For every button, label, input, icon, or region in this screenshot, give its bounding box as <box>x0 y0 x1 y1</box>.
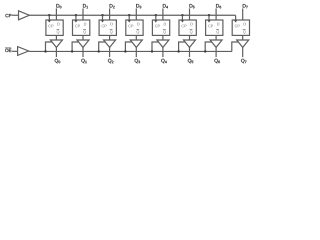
flip-flop FF8 body <box>232 20 249 35</box>
clock buffer U1 <box>19 11 30 20</box>
wire: buffer 5 output to pin Q4 <box>162 47 164 57</box>
wire: output-enable distribution line <box>29 50 232 52</box>
wire: buffer 4 output to pin Q3 <box>135 47 137 57</box>
wire: D5 input vertical <box>189 8 191 20</box>
junction dot: CP line to FF7 clock branch <box>208 14 210 16</box>
D input label D2 <box>110 4 115 8</box>
wire: clock branch into FF2 <box>75 15 77 20</box>
wire: FF4 Q-bar output down to 3-state buffer <box>135 35 137 40</box>
flip-flop FF5 body <box>152 20 169 35</box>
wire: enable branch to buffer cell 8 <box>232 42 239 51</box>
junction dot: OE line to buffer 7 enable <box>204 50 206 52</box>
wire: buffer 2 output to pin Q1 <box>82 47 84 57</box>
wire: FF6 Q-bar output down to 3-state buffer <box>189 35 191 40</box>
3-state output buffer cell 4 <box>130 40 142 47</box>
pin label CP inside FF4 <box>128 25 133 28</box>
output label Q7 <box>241 59 246 63</box>
wire: OE input to enable buffer <box>12 50 18 52</box>
wire: buffer 8 output to pin Q7 <box>242 47 244 57</box>
pin label D inside FF5 <box>164 23 166 26</box>
wire: FF2 Q-bar output down to 3-state buffer <box>82 35 84 40</box>
wire: clock branch into FF7 <box>208 15 210 20</box>
pin label CP inside FF7 <box>208 25 213 28</box>
wire: D1 input vertical <box>82 8 84 20</box>
wire: clock branch into FF4 <box>128 15 130 20</box>
clock edge-trigger arrow FF7 <box>207 20 210 22</box>
pin label Q-bar inside FF7 <box>216 30 219 33</box>
pin label CP inside FF8 <box>235 25 240 28</box>
3-state output buffer cell 1 <box>50 40 62 47</box>
clock edge-trigger arrow FF3 <box>101 20 104 22</box>
pin label D inside FF3 <box>111 23 113 26</box>
junction dot: CP line to FF6 clock branch <box>181 14 183 16</box>
wire: buffer 1 output to pin Q0 <box>55 47 57 57</box>
D input label D4 <box>163 4 168 8</box>
pin label Q-bar inside FF8 <box>243 30 246 33</box>
input label OE (active low) <box>5 49 11 52</box>
wire: enable branch to buffer cell 1 <box>46 42 53 51</box>
pin label Q-bar inside FF2 <box>83 30 86 33</box>
clock edge-trigger arrow FF2 <box>74 20 77 22</box>
junction dot: CP line to FF3 clock branch <box>101 14 103 16</box>
flip-flop FF6 body <box>179 20 196 35</box>
D input label D7 <box>243 4 248 8</box>
flip-flop FF2 body <box>73 20 90 35</box>
enable buffer U2 <box>18 47 29 56</box>
wire: clock branch into FF8 <box>235 15 237 20</box>
junction dot: OE line to buffer 6 enable <box>177 50 179 52</box>
junction dot: OE line to buffer 3 enable <box>98 50 100 52</box>
pin label CP inside FF3 <box>102 25 107 28</box>
pin label D inside FF2 <box>84 23 86 26</box>
output label Q1 <box>81 59 86 63</box>
junction dot: OE line to buffer 2 enable <box>71 50 73 52</box>
junction dot: OE line to buffer 4 enable <box>124 50 126 52</box>
junction dot: CP line to FF5 clock branch <box>155 14 157 16</box>
wire: FF7 Q-bar output down to 3-state buffer <box>215 35 217 40</box>
clock edge-trigger arrow FF4 <box>128 20 131 22</box>
wire: D2 input vertical <box>109 8 111 20</box>
wire: clock distribution line <box>29 14 235 16</box>
clock edge-trigger arrow FF5 <box>154 20 157 22</box>
wire: D7 input vertical <box>242 8 244 20</box>
pin label Q-bar inside FF6 <box>190 30 193 33</box>
pin label CP inside FF2 <box>75 25 80 28</box>
D input label D5 <box>190 4 195 8</box>
wire: enable branch to buffer cell 4 <box>125 42 131 51</box>
3-state output buffer cell 7 <box>210 40 222 47</box>
wire: D3 input vertical <box>135 8 137 20</box>
clock edge-trigger arrow FF8 <box>234 20 237 22</box>
pin label D inside FF6 <box>190 23 192 26</box>
wire: enable branch to buffer cell 6 <box>179 42 186 51</box>
junction dot: CP line to FF1 clock branch <box>48 14 50 16</box>
pin label D inside FF1 <box>57 23 59 26</box>
pin label D inside FF4 <box>137 23 139 26</box>
pin label CP inside FF1 <box>48 25 53 28</box>
junction dot: OE line to buffer 5 enable <box>151 50 153 52</box>
output label Q2 <box>108 59 113 63</box>
flip-flop FF3 body <box>99 20 116 35</box>
wire: enable branch to buffer cell 2 <box>72 42 79 51</box>
D input label D1 <box>83 4 88 8</box>
output label Q5 <box>188 59 193 63</box>
output label Q6 <box>214 59 219 63</box>
junction dot: CP line to FF4 clock branch <box>128 14 130 16</box>
3-state output buffer cell 5 <box>157 40 169 47</box>
clock edge-trigger arrow FF1 <box>48 20 51 22</box>
pin label CP inside FF5 <box>155 25 160 28</box>
pin label Q-bar inside FF5 <box>163 30 166 33</box>
clock edge-trigger arrow FF6 <box>181 20 184 22</box>
junction dot: CP line to FF2 clock branch <box>75 14 77 16</box>
D input label D0 <box>56 4 61 8</box>
wire: buffer 3 output to pin Q2 <box>109 47 111 57</box>
output label Q0 <box>55 59 60 63</box>
flip-flop FF1 body <box>46 20 63 35</box>
D input label D3 <box>136 4 141 8</box>
pin label Q-bar inside FF1 <box>57 30 60 33</box>
3-state output buffer cell 6 <box>184 40 196 47</box>
wire: FF5 Q-bar output down to 3-state buffer <box>162 35 164 40</box>
wire: FF3 Q-bar output down to 3-state buffer <box>109 35 111 40</box>
junction dot: OE line to buffer 1 enable <box>44 50 46 52</box>
wire: clock branch into FF6 <box>181 15 183 20</box>
flip-flop FF7 body <box>206 20 223 35</box>
wire: enable branch to buffer cell 3 <box>99 42 106 51</box>
3-state output buffer cell 8 <box>237 40 249 47</box>
wire: enable branch to buffer cell 7 <box>205 42 212 51</box>
wire: enable branch to buffer cell 5 <box>152 42 159 51</box>
pin label D inside FF7 <box>217 23 219 26</box>
input label CP <box>5 14 11 17</box>
wire: D0 input vertical <box>55 8 57 20</box>
wire: CP input to clock buffer <box>12 14 19 16</box>
wire: FF1 Q-bar output down to 3-state buffer <box>55 35 57 40</box>
pin label Q-bar inside FF3 <box>110 30 113 33</box>
pin label CP inside FF6 <box>181 25 186 28</box>
wire: FF8 Q-bar output down to 3-state buffer <box>242 35 244 40</box>
overline over OE <box>5 47 11 49</box>
pin label D inside FF8 <box>244 23 246 26</box>
output label Q4 <box>161 59 166 63</box>
pin label Q-bar inside FF4 <box>137 30 140 33</box>
wire: D6 input vertical <box>215 8 217 20</box>
wire: clock branch into FF3 <box>102 15 104 20</box>
wire: D4 input vertical <box>162 8 164 20</box>
3-state output buffer cell 2 <box>77 40 89 47</box>
D input label D6 <box>216 4 221 8</box>
wire: buffer 6 output to pin Q5 <box>189 47 191 57</box>
wire: clock branch into FF1 <box>48 15 50 20</box>
wire: clock branch into FF5 <box>155 15 157 20</box>
output label Q3 <box>135 59 140 63</box>
3-state output buffer cell 3 <box>104 40 116 47</box>
flip-flop FF4 body <box>126 20 143 35</box>
wire: buffer 7 output to pin Q6 <box>215 47 217 57</box>
